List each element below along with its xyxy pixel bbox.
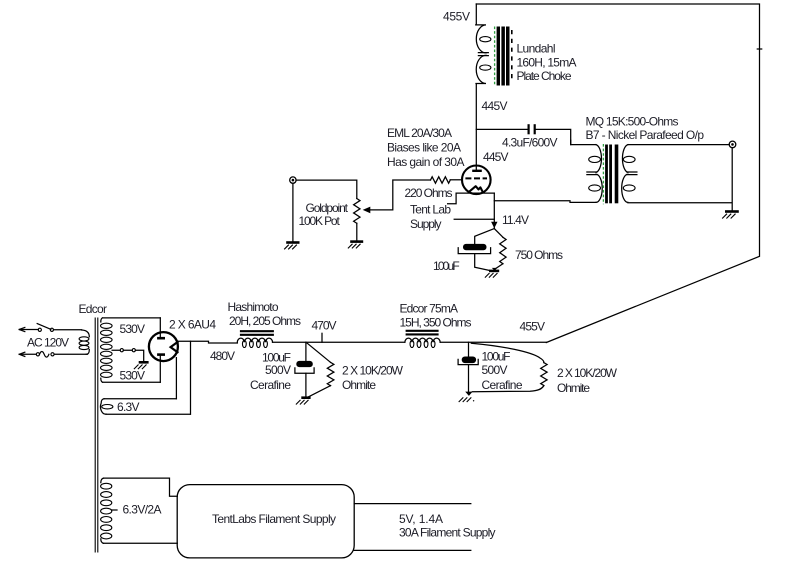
- svg-text:500V: 500V: [265, 363, 291, 377]
- svg-text:Cerafine: Cerafine: [250, 378, 291, 392]
- svg-text:20H, 205 Ohms: 20H, 205 Ohms: [229, 314, 301, 328]
- svg-text:Ohmite: Ohmite: [557, 381, 590, 395]
- svg-text:Biases like 20A: Biases like 20A: [387, 140, 461, 154]
- svg-text:Tent Lab: Tent Lab: [410, 203, 451, 217]
- svg-text:480V: 480V: [210, 349, 235, 363]
- svg-text:Ohmite: Ohmite: [342, 378, 376, 392]
- svg-text:15H, 350 Ohms: 15H, 350 Ohms: [400, 316, 472, 330]
- svg-text:2 X 10K/20W: 2 X 10K/20W: [557, 366, 618, 380]
- svg-text:530V: 530V: [120, 322, 146, 336]
- svg-text:Supply: Supply: [410, 217, 442, 231]
- svg-text:Lundahl: Lundahl: [517, 42, 556, 56]
- svg-text:EML 20A/30A: EML 20A/30A: [387, 126, 452, 140]
- svg-text:100K Pot: 100K Pot: [299, 214, 341, 228]
- svg-text:220 Ohms: 220 Ohms: [405, 186, 453, 200]
- svg-text:30A Filament Supply: 30A Filament Supply: [399, 525, 496, 539]
- svg-text:B7 - Nickel Parafeed O/p: B7 - Nickel Parafeed O/p: [586, 128, 705, 142]
- svg-text:445V: 445V: [483, 150, 509, 164]
- svg-text:470V: 470V: [312, 318, 337, 332]
- svg-text:AC 120V: AC 120V: [27, 335, 69, 349]
- svg-text:455V: 455V: [520, 320, 546, 334]
- svg-text:530V: 530V: [120, 368, 146, 382]
- svg-text:Edcor 75mA: Edcor 75mA: [400, 302, 459, 316]
- svg-text:Has gain of 30A: Has gain of 30A: [387, 155, 465, 169]
- svg-text:11.4V: 11.4V: [502, 213, 529, 227]
- svg-text:6.3V/2A: 6.3V/2A: [123, 503, 162, 517]
- svg-text:6.3V: 6.3V: [117, 400, 140, 414]
- svg-text:100uF: 100uF: [433, 259, 460, 273]
- svg-text:Hashimoto: Hashimoto: [228, 300, 279, 314]
- svg-text:160H, 15mA: 160H, 15mA: [517, 55, 577, 69]
- svg-text:2 X 10K/20W: 2 X 10K/20W: [342, 364, 404, 378]
- svg-text:Plate Choke: Plate Choke: [517, 69, 572, 83]
- svg-text:100uF: 100uF: [482, 349, 511, 363]
- svg-text:500V: 500V: [482, 363, 508, 377]
- svg-text:Cerafine: Cerafine: [482, 378, 523, 392]
- svg-text:2 X 6AU4: 2 X 6AU4: [169, 317, 216, 331]
- svg-text:5V, 1.4A: 5V, 1.4A: [399, 512, 443, 526]
- svg-text:MQ 15K:500-Ohms: MQ 15K:500-Ohms: [586, 114, 679, 128]
- svg-text:750 Ohms: 750 Ohms: [515, 248, 563, 262]
- svg-text:4.3uF/600V: 4.3uF/600V: [502, 135, 558, 149]
- svg-text:Goldpoint: Goldpoint: [306, 201, 349, 215]
- svg-text:455V: 455V: [443, 9, 470, 23]
- svg-text:TentLabs Filament Supply: TentLabs Filament Supply: [212, 512, 336, 526]
- svg-text:445V: 445V: [482, 99, 508, 113]
- svg-text:Edcor: Edcor: [79, 302, 108, 316]
